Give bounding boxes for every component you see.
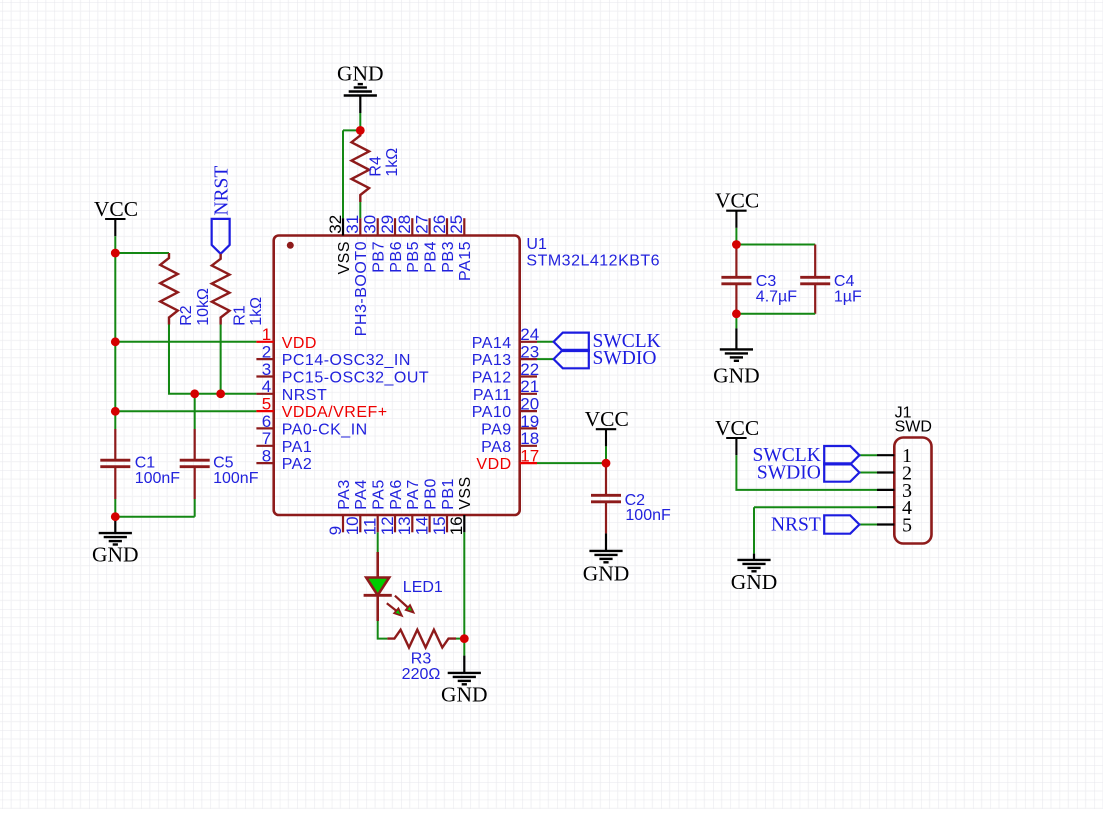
svg-text:PB1: PB1: [440, 478, 457, 510]
junction pin5: [111, 407, 120, 416]
svg-text:10: 10: [343, 516, 362, 535]
svg-text:PA3: PA3: [336, 479, 353, 510]
resistor R2: [160, 253, 178, 325]
wire pin11 to LED: [377, 532, 379, 552]
svg-text:LED1: LED1: [403, 579, 443, 596]
power flag VCC (C2): [585, 407, 629, 446]
pin 2 (J1): [877, 463, 912, 485]
svg-text:1kΩ: 1kΩ: [248, 297, 265, 326]
pin 31 PH3-BOOT0 (top): [343, 215, 370, 336]
wire C3/C4 top: [736, 244, 815, 246]
svg-text:U1: U1: [526, 236, 547, 253]
junction VCC/R2: [111, 249, 120, 258]
svg-text:22: 22: [520, 360, 539, 379]
wire VCC rail vertical: [114, 236, 116, 429]
svg-text:VDD: VDD: [476, 456, 511, 473]
svg-text:STM32L412KBT6: STM32L412KBT6: [526, 253, 660, 270]
pin 18 PA8 (right): [481, 429, 539, 456]
svg-text:PA11: PA11: [473, 387, 512, 404]
svg-text:PB3: PB3: [440, 241, 457, 273]
svg-text:VCC: VCC: [715, 189, 759, 213]
svg-text:GND: GND: [92, 543, 139, 567]
wire VCC to R2 top: [115, 252, 169, 254]
svg-text:100nF: 100nF: [135, 470, 181, 487]
pin 15 PB1 (bottom): [430, 478, 457, 535]
svg-text:PH3-BOOT0: PH3-BOOT0: [353, 241, 370, 336]
svg-text:PC14-OSC32_IN: PC14-OSC32_IN: [282, 352, 411, 369]
svg-text:26: 26: [430, 215, 449, 234]
svg-text:NRST: NRST: [282, 387, 328, 404]
svg-text:GND: GND: [731, 570, 778, 594]
svg-text:2: 2: [262, 342, 271, 361]
pin 14 PB0 (bottom): [412, 478, 439, 535]
pin 22 PA12 (right): [472, 360, 539, 387]
wire C3/C4 bottom: [736, 313, 815, 315]
svg-text:SWDIO: SWDIO: [593, 348, 657, 369]
pin 9 PA3 (bottom): [326, 479, 353, 535]
junction R1/NRST: [216, 389, 225, 398]
LED LED1: [364, 552, 414, 621]
pin 11 PA5 (bottom): [360, 479, 387, 535]
junction pin17/C2: [602, 459, 611, 468]
svg-text:31: 31: [343, 215, 362, 234]
pin 17 VDD (right): [476, 446, 539, 473]
svg-text:PB6: PB6: [388, 241, 405, 273]
power flag VCC (left rail): [94, 197, 138, 236]
svg-text:C5: C5: [213, 455, 234, 472]
svg-text:29: 29: [378, 215, 397, 234]
svg-text:13: 13: [395, 516, 414, 535]
pin 29 PB6 (top): [378, 215, 405, 273]
svg-text:1: 1: [262, 325, 271, 344]
ground GND (J1): [753, 554, 755, 560]
pin 23 PA13 (right): [472, 342, 539, 369]
pin 4 (J1): [877, 497, 912, 519]
svg-text:GND: GND: [583, 562, 630, 586]
ground GND (C3): [735, 328, 737, 349]
pin 20 PA10 (right): [472, 394, 539, 421]
svg-text:23: 23: [520, 342, 539, 361]
wire R3 to pin16 rail: [456, 638, 464, 640]
net flag SWDIO (chip): [554, 350, 589, 368]
wire pin24 to SWCLK flag: [537, 341, 554, 343]
svg-text:GND: GND: [713, 364, 760, 388]
svg-text:VCC: VCC: [585, 407, 629, 431]
wire R4 to pin31 BOOT0: [359, 202, 361, 218]
pin 24 PA14 (right): [472, 325, 539, 352]
pin 27 PB4 (top): [412, 215, 439, 273]
resistor R4: [352, 130, 370, 202]
capacitor C1: [100, 429, 130, 499]
svg-text:PA0-CK_IN: PA0-CK_IN: [282, 421, 368, 438]
svg-text:7: 7: [262, 429, 271, 448]
junction R3/GND rail: [460, 634, 469, 643]
svg-text:PA14: PA14: [472, 335, 512, 352]
wire J1 pin4 to GND: [754, 507, 877, 553]
pin 25 PA15 (top): [447, 215, 474, 281]
svg-text:17: 17: [520, 446, 539, 465]
net flag SWCLK (chip): [554, 333, 589, 351]
connector J1 body: [894, 438, 931, 544]
ground GND (top, inverted): [337, 61, 384, 95]
svg-text:5: 5: [902, 515, 912, 537]
junction C3/C4 GND: [732, 309, 741, 318]
wire VCC to pin17: [537, 446, 606, 463]
svg-text:NRST: NRST: [211, 166, 232, 216]
svg-text:GND: GND: [337, 61, 384, 85]
svg-text:VDDA/VREF+: VDDA/VREF+: [282, 404, 388, 421]
svg-text:3: 3: [262, 360, 271, 379]
svg-text:PA7: PA7: [405, 479, 422, 510]
svg-text:VCC: VCC: [94, 197, 138, 221]
net flag SWCLK (J1): [859, 454, 877, 456]
chip pin-1 dot: [287, 242, 294, 249]
svg-text:4: 4: [262, 377, 271, 396]
pin 6 PA0-CK_IN (left): [256, 412, 367, 439]
svg-text:220Ω: 220Ω: [402, 666, 441, 683]
svg-text:18: 18: [520, 429, 539, 448]
svg-text:20: 20: [520, 394, 539, 413]
pin 12 PA6 (bottom): [378, 479, 405, 535]
svg-text:21: 21: [520, 377, 539, 396]
wire GND to junction: [359, 96, 361, 114]
svg-text:PA1: PA1: [282, 439, 313, 456]
pin 5 (J1): [877, 515, 912, 537]
svg-text:15: 15: [430, 516, 449, 535]
pin 10 PA4 (bottom): [343, 479, 370, 535]
ground GND (left): [114, 517, 116, 533]
svg-text:24: 24: [520, 325, 539, 344]
wire C1/C5 bottoms to GND: [115, 499, 194, 517]
svg-text:C1: C1: [135, 455, 156, 472]
capacitor C4: [800, 245, 830, 314]
svg-text:4.7µF: 4.7µF: [756, 289, 797, 306]
junction VCC/C3/C4: [732, 240, 741, 249]
svg-text:19: 19: [520, 412, 539, 431]
pin 1 (J1): [877, 445, 912, 467]
wire C5 top to NRST net: [194, 394, 196, 429]
ground GND (C2): [605, 533, 607, 551]
svg-text:32: 32: [326, 215, 345, 234]
svg-text:8: 8: [262, 446, 271, 465]
pin 1 VDD (left): [256, 325, 317, 352]
svg-text:R2: R2: [178, 305, 195, 326]
svg-text:27: 27: [412, 215, 431, 234]
svg-text:SWDIO: SWDIO: [757, 463, 821, 484]
pin 13 PA7 (bottom): [395, 479, 422, 535]
pin 21 PA11 (right): [473, 377, 539, 404]
svg-text:28: 28: [395, 215, 414, 234]
svg-text:25: 25: [447, 215, 466, 234]
pin 2 PC14-OSC32_IN (left): [256, 342, 411, 369]
svg-text:SWD: SWD: [895, 419, 932, 436]
svg-text:10kΩ: 10kΩ: [195, 288, 212, 326]
net flag SWDIO (J1): [859, 472, 877, 474]
svg-text:1µF: 1µF: [834, 289, 862, 306]
svg-text:14: 14: [412, 516, 431, 535]
svg-text:PA9: PA9: [481, 421, 512, 438]
svg-text:PC15-OSC32_OUT: PC15-OSC32_OUT: [282, 369, 430, 386]
pin 4 NRST (left): [256, 377, 327, 404]
svg-text:NRST: NRST: [771, 514, 821, 535]
pin 28 PB5 (top): [395, 215, 422, 273]
pin 5 VDDA/VREF+ (left): [256, 394, 387, 421]
svg-text:R1: R1: [232, 305, 249, 326]
svg-text:5: 5: [262, 394, 271, 413]
svg-text:16: 16: [447, 516, 466, 535]
svg-text:PA10: PA10: [472, 404, 512, 421]
svg-text:PB5: PB5: [405, 241, 422, 273]
svg-text:VCC: VCC: [715, 416, 759, 440]
pin 16 VSS (bottom): [447, 476, 474, 535]
wire pin5 VDDA: [115, 410, 256, 412]
wire pin16 VSS down to GND: [463, 532, 465, 655]
op chip U1 body STM32L412KBT6: [274, 236, 520, 516]
net flag NRST (J1): [859, 524, 877, 526]
svg-text:9: 9: [326, 526, 345, 535]
pin 26 PB3 (top): [430, 215, 457, 273]
wire R1 bottom: [220, 325, 222, 394]
pin 8 PA2 (left): [256, 446, 312, 473]
capacitor C5: [180, 429, 210, 499]
svg-text:1kΩ: 1kΩ: [384, 148, 401, 177]
power flag VCC (J1): [715, 416, 759, 455]
svg-text:100nF: 100nF: [213, 470, 259, 487]
pin 19 PA9 (right): [481, 412, 539, 439]
wire pin23 to SWDIO flag: [537, 358, 554, 360]
junction C5/NRST: [190, 389, 199, 398]
svg-text:PA5: PA5: [370, 479, 387, 510]
pin 3 (J1): [877, 480, 912, 502]
svg-text:11: 11: [360, 518, 379, 536]
net flag NRST (top): [212, 219, 230, 254]
svg-text:PA6: PA6: [388, 479, 405, 510]
wire GND to pin32 VSS: [343, 130, 360, 218]
wire pin1 VDD: [115, 341, 256, 343]
svg-text:100nF: 100nF: [625, 507, 671, 524]
pin 30 PB7 (top): [360, 215, 387, 273]
svg-text:VSS: VSS: [457, 476, 474, 510]
svg-text:PA15: PA15: [457, 241, 474, 281]
svg-text:PB0: PB0: [422, 478, 439, 510]
resistor R1: [212, 254, 230, 325]
wire VCC to J1 pin3: [736, 455, 877, 490]
svg-text:30: 30: [360, 215, 379, 234]
wire LED to R3: [378, 621, 388, 639]
pin 32 VSS (top): [326, 215, 353, 275]
power flag VCC (C3): [715, 189, 759, 228]
svg-text:PB4: PB4: [422, 241, 439, 273]
junction GND/R4: [356, 126, 365, 135]
svg-text:6: 6: [262, 412, 271, 431]
svg-text:12: 12: [378, 516, 397, 535]
svg-text:PA12: PA12: [472, 369, 512, 386]
svg-text:PA13: PA13: [472, 352, 512, 369]
capacitor C2: [591, 463, 621, 533]
resistor R3: [387, 630, 456, 648]
ground GND (bottom): [463, 656, 465, 673]
svg-text:PA2: PA2: [282, 456, 313, 473]
svg-text:R4: R4: [368, 156, 385, 177]
svg-text:PB7: PB7: [370, 241, 387, 273]
svg-text:PA4: PA4: [353, 479, 370, 510]
svg-text:VSS: VSS: [336, 241, 353, 275]
capacitor C3: [721, 245, 751, 314]
svg-text:VDD: VDD: [282, 335, 317, 352]
junction GND left: [111, 512, 120, 521]
svg-text:PA8: PA8: [481, 439, 512, 456]
svg-text:GND: GND: [441, 683, 488, 707]
junction pin1: [111, 337, 120, 346]
pin 3 PC15-OSC32_OUT (left): [256, 360, 429, 387]
wire R2 bottom to pin4 NRST: [169, 325, 256, 394]
pin 7 PA1 (left): [256, 429, 312, 456]
